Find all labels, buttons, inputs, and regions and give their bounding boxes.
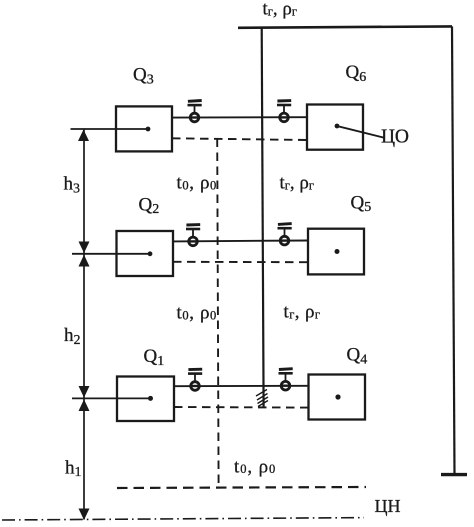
radiator Q3: [116, 106, 172, 151]
dimension arrow up at floor3: [78, 130, 89, 142]
svg-text:ЦН: ЦН: [375, 496, 401, 516]
wire floor2 supply pipe: [173, 240, 308, 243]
wire floor2 return pipe dashed: [173, 261, 308, 263]
svg-text:tг, ρг: tг, ρг: [280, 173, 315, 194]
radiator Q1: [117, 377, 174, 422]
svg-text:tг, ρг: tг, ρг: [284, 302, 321, 323]
wire floor3 supply pipe: [172, 116, 307, 118]
node dot Q4: [335, 394, 340, 399]
dimension arrow up below floor2: [79, 255, 90, 267]
wire floor3 left supply: [71, 128, 149, 130]
dimension arrow down at floor2: [79, 242, 90, 254]
valve floor2 left: [186, 225, 200, 246]
riser break hatch marks: [256, 390, 268, 407]
valve floor2 right: [278, 224, 292, 245]
wire bottom return main dashed: [117, 487, 366, 488]
node dot Q6: [335, 124, 340, 129]
wire floor1 supply pipe: [174, 385, 309, 387]
wire floor1 return pipe dashed: [174, 406, 309, 409]
dimension line vertical: [83, 130, 85, 520]
wire floor2 left supply: [72, 253, 150, 255]
wire top supply header: [238, 26, 452, 27]
valve floor1 right: [279, 369, 293, 390]
wire floor3 return pipe dashed: [172, 138, 307, 140]
node dot Q5: [335, 249, 340, 254]
svg-text:ЦО: ЦО: [381, 127, 409, 148]
terminator cap bottom right: [441, 473, 467, 476]
node dot Q2: [148, 251, 153, 256]
wire floor1 left supply: [72, 397, 151, 399]
svg-text:tг, ρг: tг, ρг: [263, 0, 298, 20]
radiator Q2: [117, 231, 174, 276]
dimension arrow down at floor1: [79, 386, 90, 398]
valve floor3 left: [188, 101, 202, 122]
radiator Q5: [308, 229, 364, 275]
wire supply riser: [262, 27, 264, 407]
wire return riser dashed: [217, 139, 218, 488]
radiator Q6: [307, 105, 363, 150]
node dot Q3: [146, 127, 151, 132]
valve floor1 left: [188, 369, 202, 390]
radiator Q4: [309, 375, 366, 420]
wire right expansion pipe: [452, 26, 455, 474]
ground datum dash-dot line: [2, 518, 364, 520]
dimension arrow up below floor1: [79, 399, 90, 411]
valve floor3 right: [277, 101, 291, 122]
dimension arrow down at ground: [79, 509, 90, 521]
leader line to CO label: [337, 126, 385, 138]
node dot Q1: [148, 396, 153, 401]
